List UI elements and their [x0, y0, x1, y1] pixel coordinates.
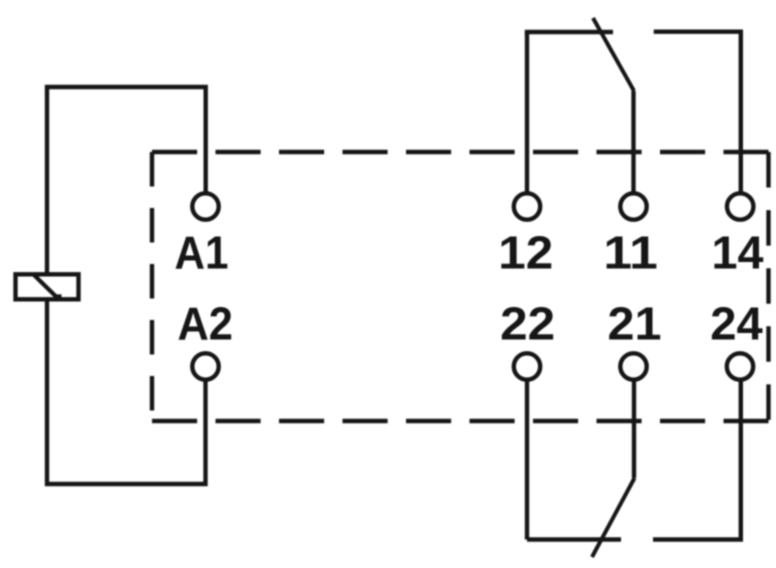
relay outline dashed box: left edge: [150, 152, 154, 421]
wire NO contact 24 rail and terminal 24 drop: [653, 381, 741, 540]
wire NC contact 22 rail: [527, 537, 621, 541]
wire terminal 22 down to NC contact: [525, 381, 529, 540]
switch lever top (pole 11): [593, 18, 634, 91]
terminal 14: [727, 193, 753, 219]
wire A2 loop: coil down, right, up to terminal A2: [47, 299, 206, 484]
relay outline dashed box: top edge: [152, 150, 769, 154]
svg-text:A2: A2: [177, 298, 233, 350]
svg-text:A1: A1: [175, 227, 229, 279]
terminal A1: [192, 193, 218, 219]
terminal A2: [192, 353, 218, 379]
relay outline dashed box: bottom edge: [152, 419, 769, 423]
svg-text:12: 12: [498, 227, 553, 279]
relay outline dashed box: right edge: [766, 152, 770, 421]
wire terminal 11 up to lever pivot: [631, 91, 635, 193]
terminal 12: [514, 193, 540, 219]
relay coil: [16, 274, 79, 299]
coil indicator diagonal: [34, 275, 62, 297]
terminal 21: [620, 353, 646, 379]
terminal 11: [620, 193, 646, 219]
svg-text:22: 22: [500, 298, 555, 350]
wire terminal 12 up to NC contact: [525, 32, 529, 193]
terminal 24: [727, 353, 753, 379]
wire A1 loop: terminal A1 up, left, down to coil: [47, 87, 206, 274]
wire NO contact 14 rail and terminal 14 drop: [654, 32, 741, 193]
svg-text:21: 21: [608, 298, 662, 350]
terminal 22: [514, 353, 540, 379]
wire terminal 21 down to lever pivot: [632, 381, 636, 479]
svg-text:14: 14: [712, 227, 764, 279]
svg-text:24: 24: [710, 298, 763, 350]
switch lever bottom (pole 21): [592, 478, 635, 557]
svg-text:11: 11: [603, 227, 658, 279]
wire NC contact 12 rail: [525, 30, 613, 34]
